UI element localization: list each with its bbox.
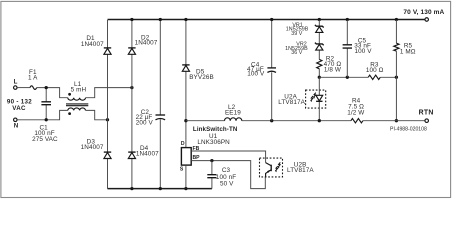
wire R5 branch xyxy=(395,20,397,121)
IC U1 LNK306PN body xyxy=(181,148,191,166)
svg-text:L: L xyxy=(14,78,18,85)
node junction bottom rail C2 xyxy=(159,187,162,190)
node junction top rail C2 xyxy=(159,18,162,21)
wire N terminal to L1 lower xyxy=(17,110,68,119)
node junction S on bottom rail xyxy=(184,187,187,190)
svg-text:50 V: 50 V xyxy=(220,181,234,188)
svg-text:LTV817A: LTV817A xyxy=(278,99,305,106)
optocoupler U2B LTV817A transistor side xyxy=(260,158,315,177)
node junction top rail R5 xyxy=(395,18,398,21)
capacitor C4 47 uF 100 V xyxy=(247,61,276,77)
node junction U2A LED bottom on RTN line xyxy=(318,119,321,122)
diode D5 BYV26B xyxy=(182,65,214,81)
svg-text:S: S xyxy=(180,166,184,172)
svg-text:100 Ω: 100 Ω xyxy=(366,67,384,74)
node junction top rail C5 xyxy=(346,18,349,21)
optocoupler U2A LTV817A LED side xyxy=(278,77,325,120)
node junction bottom rail D4 xyxy=(130,187,133,190)
capacitor C5 33 nF 100 V xyxy=(343,37,373,55)
capacitor C3 100 nF 50 V xyxy=(207,161,236,189)
wire drain node to L2 xyxy=(186,120,225,122)
top rail xyxy=(108,19,425,21)
wire U1 FB pin to opto collector xyxy=(191,151,265,163)
capacitor C1 100 nF 275 VAC xyxy=(32,88,58,144)
svg-text:1N4007: 1N4007 xyxy=(135,40,158,47)
svg-text:1 MΩ: 1 MΩ xyxy=(400,48,416,55)
svg-text:BP: BP xyxy=(193,155,201,161)
inductor L2 EE19 xyxy=(225,104,242,121)
inductor L1 5 mH common-mode choke xyxy=(66,81,88,115)
node junction C4 bottom xyxy=(270,119,273,122)
wire C4 branch xyxy=(271,20,273,121)
resistor R4 7.5 ohm 1/2 W xyxy=(347,98,364,123)
svg-text:1N4007: 1N4007 xyxy=(136,151,159,158)
resistor R2 470 ohm 1/8 W xyxy=(317,56,342,74)
wire RTN line to terminal xyxy=(363,120,425,122)
node junction C1 top xyxy=(45,86,48,89)
wire L terminal to fuse xyxy=(17,87,30,89)
node output terminal 70V 130mA xyxy=(403,9,444,21)
diode D2 1N4007 xyxy=(128,35,158,55)
wire C2 branch vertical xyxy=(159,20,161,189)
svg-text:C3: C3 xyxy=(222,167,231,174)
node junction drain / L2 xyxy=(184,119,187,122)
svg-text:BYV26B: BYV26B xyxy=(189,74,214,81)
node junction top rail C4 xyxy=(270,18,273,21)
node junction AC node on D2 branch xyxy=(130,86,133,89)
node junction top rail VR1 xyxy=(318,18,321,21)
node junction R5 bottom on RTN line xyxy=(395,119,398,122)
wire D5 branch vertical / U1 drain xyxy=(185,20,187,148)
diode D1 1N4007 xyxy=(81,35,111,54)
node RTN terminal xyxy=(419,110,434,123)
node junction R3 right xyxy=(395,76,398,79)
wire U1 BP pin line xyxy=(191,161,265,189)
diode D3 1N4007 xyxy=(81,138,112,158)
svg-text:1/2 W: 1/2 W xyxy=(347,109,364,116)
node junction C1 bottom xyxy=(45,118,48,121)
svg-text:RTN: RTN xyxy=(419,110,434,117)
node junction AC node on D1 branch xyxy=(106,118,109,121)
wire L1 lower to D1 branch xyxy=(86,110,108,119)
svg-text:100 V: 100 V xyxy=(354,48,372,55)
wire C5 branch xyxy=(346,20,348,77)
node N input terminal xyxy=(14,118,19,130)
svg-text:1N4007: 1N4007 xyxy=(81,41,104,48)
node junction C5 bottom xyxy=(346,76,349,79)
svg-text:D: D xyxy=(181,141,185,147)
wire D2 branch vertical xyxy=(131,20,133,189)
node junction top rail D2 xyxy=(130,18,133,21)
resistor R5 1 Mohm xyxy=(394,42,416,55)
wire L2 to output node xyxy=(242,120,351,122)
wire VR branch vertical xyxy=(318,20,320,77)
diode D4 1N4007 xyxy=(128,145,159,158)
svg-text:100 V: 100 V xyxy=(247,70,265,77)
bottom rail xyxy=(108,188,212,190)
svg-text:N: N xyxy=(14,123,19,130)
svg-text:EE19: EE19 xyxy=(225,110,241,117)
svg-text:LNK306PN: LNK306PN xyxy=(197,139,230,146)
resistor R3 100 ohm xyxy=(366,62,384,80)
node junction R2 bottom xyxy=(318,76,321,79)
svg-text:5 mH: 5 mH xyxy=(71,86,87,93)
wire fuse to L1 upper xyxy=(37,88,68,98)
wire zener node horizontal xyxy=(319,76,396,78)
wire D1 branch vertical xyxy=(107,20,109,189)
fuse F1 1 A xyxy=(28,69,38,89)
node junction top rail D5 xyxy=(184,18,187,21)
svg-text:36 V: 36 V xyxy=(291,50,303,56)
node L input terminal xyxy=(14,78,18,89)
node junction C3 top xyxy=(210,159,213,162)
svg-text:1N4007: 1N4007 xyxy=(81,144,104,151)
svg-text:LinkSwitch-TN: LinkSwitch-TN xyxy=(193,126,238,133)
svg-text:VAC: VAC xyxy=(12,105,26,112)
svg-text:39 V: 39 V xyxy=(291,31,303,37)
svg-text:275 VAC: 275 VAC xyxy=(32,136,58,143)
svg-text:LTV817A: LTV817A xyxy=(287,167,314,174)
svg-text:1 A: 1 A xyxy=(28,75,38,82)
wire U1 source pin to bottom rail xyxy=(185,165,187,189)
svg-text:70 V, 130 mA: 70 V, 130 mA xyxy=(403,9,444,16)
svg-text:PI-4988-020108: PI-4988-020108 xyxy=(390,126,427,132)
label 90-132 VAC xyxy=(7,98,32,111)
capacitor C2 22 uF 200 V xyxy=(136,109,166,127)
svg-text:1/8 W: 1/8 W xyxy=(324,66,341,73)
wire L1 upper to D2 branch xyxy=(86,88,132,98)
svg-text:200 V: 200 V xyxy=(136,120,154,127)
zener VR1 1N5259B 39 V xyxy=(286,23,324,37)
zener VR2 1N5259B 36 V xyxy=(285,42,324,56)
